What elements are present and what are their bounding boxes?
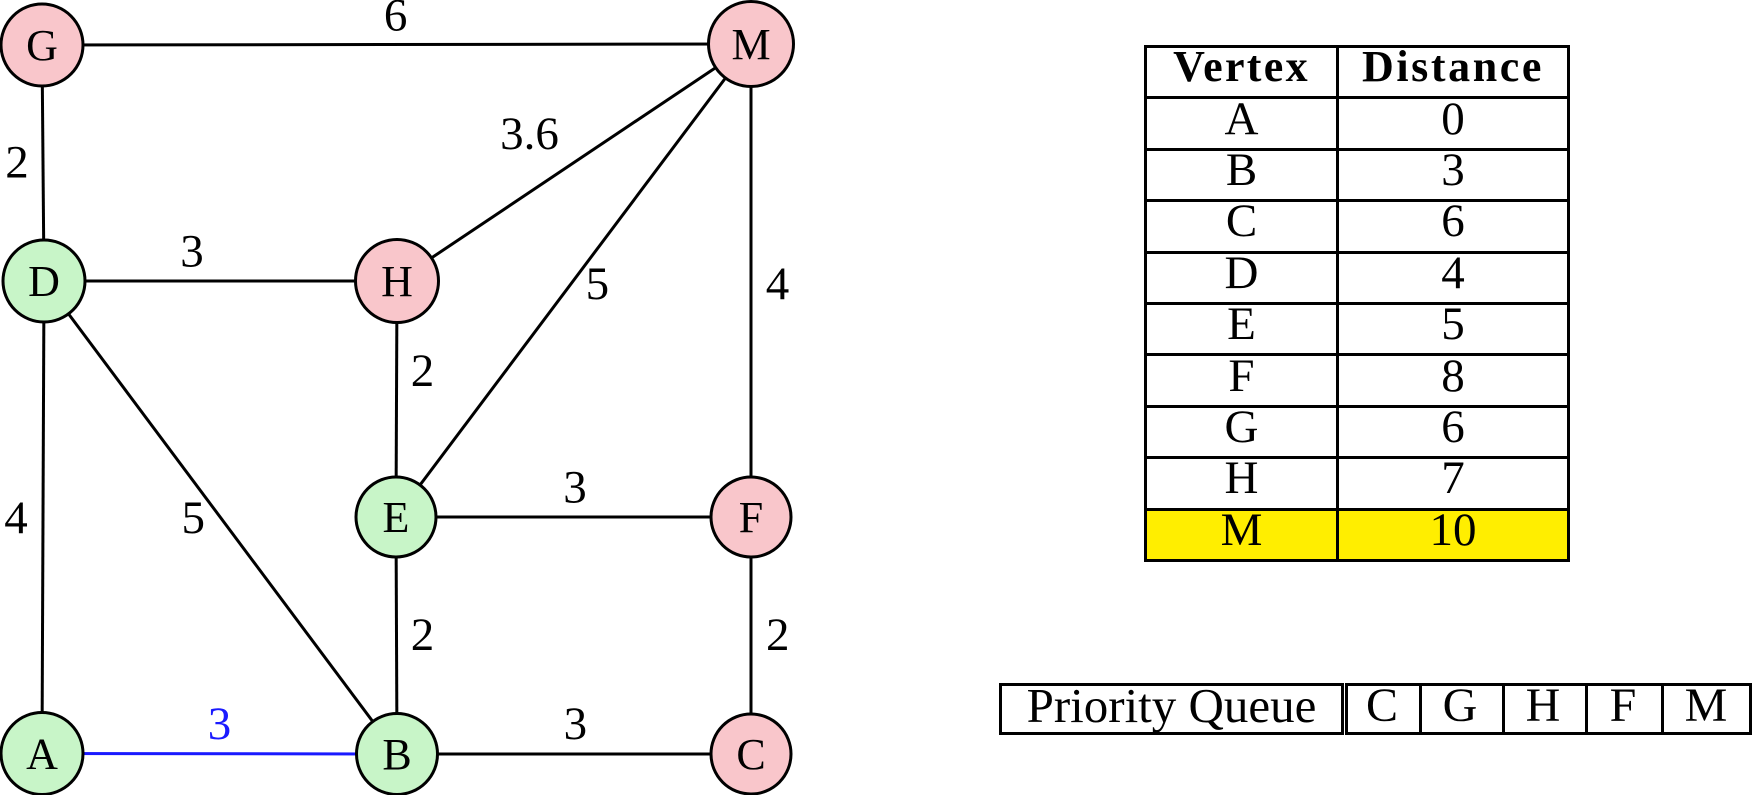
wire E-F — [396, 516, 751, 519]
queue letter C — [1366, 683, 1398, 735]
node G — [1, 4, 83, 86]
queue divider 4 — [1661, 683, 1664, 735]
svg-text:4: 4 — [766, 258, 790, 310]
node H — [356, 240, 439, 323]
wire M-E — [396, 44, 751, 517]
wire G-M — [42, 44, 751, 45]
queue divider 3 — [1585, 683, 1588, 735]
wire A-B (blue) — [42, 752, 397, 756]
queue letter G — [1443, 683, 1478, 735]
svg-text:6: 6 — [384, 0, 408, 42]
wire H-E — [396, 281, 397, 517]
node D — [3, 240, 85, 322]
svg-text:D: D — [28, 257, 60, 306]
wire F-C — [750, 517, 753, 754]
svg-text:3: 3 — [180, 225, 204, 277]
node F — [711, 477, 791, 557]
svg-text:F: F — [739, 493, 763, 542]
svg-text:B: B — [382, 730, 411, 779]
wire D-A — [42, 281, 44, 754]
wire H-M — [397, 44, 751, 281]
wire D-H — [44, 280, 397, 283]
svg-text:2: 2 — [5, 137, 29, 189]
svg-text:2: 2 — [411, 609, 435, 661]
queue divider 1 — [1419, 683, 1422, 735]
svg-text:C: C — [736, 730, 765, 779]
node B — [357, 714, 438, 795]
queue letter M — [1685, 683, 1728, 735]
node M — [709, 2, 794, 87]
node E — [356, 477, 436, 557]
svg-text:M: M — [731, 20, 770, 69]
distance table — [1144, 45, 1570, 562]
svg-text:5: 5 — [586, 258, 610, 310]
svg-text:A: A — [26, 730, 58, 779]
wire B-C — [397, 753, 751, 756]
node C — [711, 714, 791, 794]
wire M-F — [750, 44, 753, 517]
svg-text:2: 2 — [766, 609, 790, 661]
wire G-D — [42, 45, 44, 281]
svg-text:G: G — [26, 21, 58, 70]
queue letter F — [1610, 683, 1637, 735]
wire D-B — [44, 281, 397, 754]
svg-text:H: H — [381, 257, 413, 306]
svg-text:E: E — [383, 493, 410, 542]
svg-text:5: 5 — [182, 492, 206, 544]
wire E-B — [396, 517, 397, 754]
svg-text:3: 3 — [208, 698, 232, 750]
node A — [1, 713, 83, 795]
svg-text:4: 4 — [4, 492, 28, 544]
svg-text:3: 3 — [563, 462, 587, 514]
queue letter H — [1526, 683, 1561, 735]
svg-text:3.6: 3.6 — [500, 108, 559, 160]
queue divider 2 — [1502, 683, 1505, 735]
priority queue label box — [999, 683, 1344, 735]
svg-text:3: 3 — [564, 698, 588, 750]
svg-text:2: 2 — [411, 345, 435, 397]
priority queue cells — [1345, 683, 1752, 735]
